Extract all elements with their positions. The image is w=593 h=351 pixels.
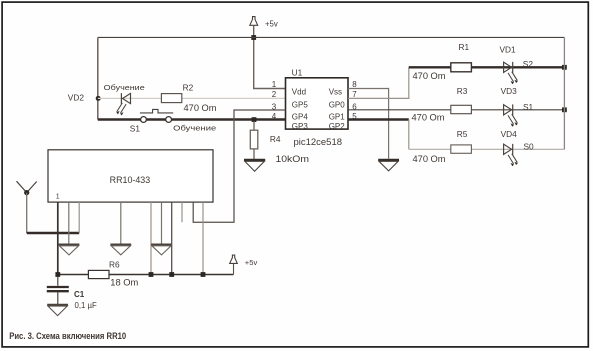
node: VD2 branch junction: [96, 96, 101, 101]
svg-text:C1: C1: [74, 290, 85, 299]
svg-text:S1: S1: [130, 123, 141, 133]
wire: +5v down through top rail to U1 pin 1 (Vdd): [254, 25, 286, 88]
wire: RR10 pin 5 down to supply rail: [150, 202, 152, 274]
wire: RR10 pin 1 (Vcc) down to supply rail: [57, 202, 59, 274]
node: row2 / bus junction: [562, 107, 567, 112]
wire: U1 pin 6 (GP1) row 2: [348, 109, 564, 111]
U1 pin labels: [292, 87, 345, 131]
svg-text:pic12ce518: pic12ce518: [294, 137, 343, 147]
switch S1 contact circles: [141, 117, 147, 123]
svg-text:R3: R3: [457, 86, 468, 96]
ground (C1): [47, 305, 68, 316]
+5v supply pin (bottom): [230, 255, 258, 274]
wire: thick GP3 wire (left vertical to S1 to U1 pin 4): [98, 118, 286, 120]
ground (U1 Vss): [378, 160, 399, 171]
svg-text:+5v: +5v: [245, 258, 258, 267]
svg-text:470 Om: 470 Om: [412, 112, 445, 123]
svg-text:GP0: GP0: [329, 101, 346, 110]
svg-text:7: 7: [352, 90, 357, 99]
wire: top +5v rail: [98, 36, 565, 38]
wire: RR10 pin 10 down to supply rail: [202, 202, 204, 274]
wire: RR10 pin 2 to ground: [68, 202, 70, 244]
svg-text:GP5: GP5: [292, 101, 309, 110]
wire: RR10 pin 7 down to supply rail: [171, 202, 173, 274]
wire: left vertical branch: [97, 37, 99, 119]
svg-text:VD2: VD2: [68, 92, 85, 102]
ground (RR10 pin 2): [59, 245, 80, 255]
+5v supply pin (top): [250, 17, 278, 29]
svg-text:R1: R1: [459, 42, 470, 52]
wire: U1 pin 7 (GP0) up to row 1: [348, 67, 409, 98]
svg-text:1: 1: [56, 194, 60, 201]
svg-text:GP3: GP3: [292, 122, 309, 131]
IC U1 pic12ce518: [286, 67, 349, 147]
node: row1 / bus junction: [562, 65, 567, 70]
svg-text:Обучение: Обучение: [173, 124, 216, 133]
svg-text:2: 2: [272, 90, 277, 99]
svg-text:470 Om: 470 Om: [184, 102, 217, 113]
svg-text:Рис. 3. Схема включения RR10: Рис. 3. Схема включения RR10: [9, 331, 126, 341]
wire: RR10 pin 6 to ground: [161, 202, 163, 244]
wire: row 1 (S2 LED row): [409, 66, 565, 68]
svg-text:VD4: VD4: [501, 129, 518, 139]
stub: RR10 pin 8 (n.c.): [181, 202, 183, 222]
svg-text:RR10-433: RR10-433: [110, 175, 151, 185]
node: pin7 junction: [169, 272, 174, 277]
svg-text:GP2: GP2: [329, 122, 346, 131]
photodiode VD2: [116, 93, 130, 115]
svg-text:S2: S2: [523, 59, 534, 69]
resistor R6: [88, 270, 109, 278]
svg-text:S0: S0: [524, 142, 535, 152]
wire: bottom +5v rail: [58, 274, 234, 276]
node: C1 junction: [55, 272, 60, 277]
wire: RR10 data pin 9 to U1 pin 3 (GP4): [193, 110, 285, 222]
ground (R4): [244, 160, 265, 171]
LED VD3: [504, 104, 518, 126]
svg-text:470 Om: 470 Om: [413, 70, 446, 81]
wire: right vertical bus: [563, 37, 565, 149]
wire: U1 pin 5 (GP2) down to row 3: [348, 118, 409, 120]
svg-text:Vdd: Vdd: [292, 87, 306, 96]
svg-text:1: 1: [272, 80, 277, 89]
node: pin5 junction: [149, 272, 154, 277]
LED VD1: [504, 62, 518, 84]
wire: U1 pin 8 (Vss) to ground: [348, 89, 389, 159]
svg-text:8: 8: [352, 80, 357, 89]
resistor R4: [253, 121, 255, 130]
svg-text:Vss: Vss: [329, 87, 342, 96]
resistor R2: [161, 94, 181, 103]
svg-text:GP1: GP1: [329, 113, 346, 122]
svg-text:R5: R5: [457, 129, 468, 139]
resistor R1: [451, 63, 472, 72]
svg-text:GP4: GP4: [292, 113, 309, 122]
wire: row 3 (S0 LED row): [409, 148, 565, 150]
ground (RR10 pin 6): [151, 245, 172, 255]
node: R4 junction on GP3 wire: [252, 117, 257, 122]
svg-text:U1: U1: [292, 67, 303, 77]
svg-text:S1: S1: [523, 102, 534, 112]
svg-text:+5v: +5v: [265, 20, 278, 29]
svg-text:VD1: VD1: [500, 44, 517, 54]
svg-text:Обучение: Обучение: [104, 83, 145, 92]
svg-text:10kOm: 10kOm: [276, 153, 310, 164]
svg-text:R4: R4: [270, 134, 281, 144]
svg-text:4: 4: [272, 112, 277, 121]
wire: antenna down and to RR10 pin 3: [26, 193, 28, 233]
svg-text:18 Om: 18 Om: [110, 277, 138, 288]
svg-text:R6: R6: [109, 259, 120, 269]
capacitor C1: [47, 277, 97, 310]
switch S1 actuator bar: [140, 109, 173, 113]
wire: RR10 pin 4 to ground: [120, 202, 122, 244]
wire: VD2 / R2 branch to U1 pin 2 (GP5): [98, 97, 286, 99]
antenna: [17, 181, 37, 195]
RR10-433 receiver module: [48, 150, 213, 202]
LED VD4: [504, 144, 518, 166]
svg-text:R2: R2: [183, 83, 194, 93]
svg-text:0,1 µF: 0,1 µF: [75, 301, 97, 310]
resistor R3: [451, 105, 472, 113]
ground (RR10 pin 4): [110, 245, 131, 255]
svg-text:470 Om: 470 Om: [413, 153, 446, 164]
node: pin10 junction: [201, 272, 206, 277]
wire: RR10 antenna pin 3: [78, 202, 80, 233]
node: +5v junction on top rail: [251, 35, 256, 40]
svg-text:VD3: VD3: [501, 86, 518, 96]
resistor R5: [451, 145, 472, 153]
